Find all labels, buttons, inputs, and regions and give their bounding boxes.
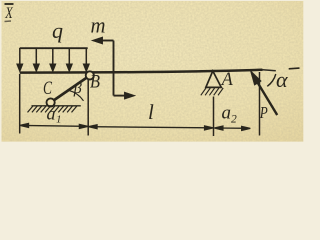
dimension a1 line xyxy=(20,124,88,129)
pin circle C xyxy=(47,98,55,106)
svg-text:α: α xyxy=(276,67,288,92)
ground hatching under A xyxy=(201,88,223,95)
svg-text:1: 1 xyxy=(56,114,62,126)
angle beta arc xyxy=(69,90,84,101)
svg-text:m: m xyxy=(91,13,106,38)
svg-text:2: 2 xyxy=(231,113,237,125)
paper background xyxy=(0,0,307,144)
link rod C-B xyxy=(51,76,90,103)
svg-text:X: X xyxy=(5,5,14,22)
svg-text:a: a xyxy=(222,103,232,124)
moment couple m : bottom arrow (points right) xyxy=(114,95,128,97)
ground hatching under C xyxy=(28,106,78,113)
svg-text:β: β xyxy=(73,80,82,97)
svg-text:q: q xyxy=(52,18,63,43)
force P arrowhead xyxy=(250,70,262,86)
label X-bar (top-left) xyxy=(5,4,14,22)
svg-text:C: C xyxy=(43,78,52,99)
extension line at beam left end xyxy=(19,74,21,134)
svg-text:B: B xyxy=(90,72,100,93)
beam axis extension past right end xyxy=(263,70,276,71)
moment couple m : top arrow (points left) xyxy=(94,38,133,99)
force P line xyxy=(257,81,277,115)
support A triangle xyxy=(206,71,222,87)
distributed load arrows xyxy=(17,48,89,71)
extension line below B xyxy=(87,80,89,136)
ground line under C xyxy=(32,105,81,107)
extension line below A xyxy=(213,97,215,137)
svg-text:a: a xyxy=(47,104,56,124)
moment couple m : vertical link xyxy=(113,41,115,96)
beam xyxy=(20,70,263,73)
extension line below beam right end xyxy=(259,72,261,136)
dimension l line xyxy=(88,125,213,130)
svg-text:P: P xyxy=(259,103,268,122)
angle alpha arc xyxy=(267,74,276,86)
axis dash further right xyxy=(289,67,300,70)
svg-text:A: A xyxy=(220,69,233,90)
dimension a2 line xyxy=(214,126,250,130)
pin circle B xyxy=(86,71,94,79)
distributed load q : top line xyxy=(20,47,88,49)
svg-text:l: l xyxy=(148,100,154,124)
